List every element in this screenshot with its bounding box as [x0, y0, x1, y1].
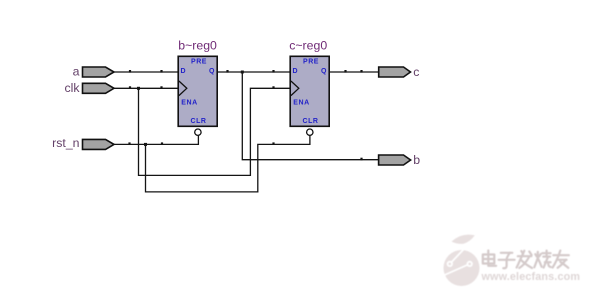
svg-text:D: D	[293, 68, 299, 75]
svg-text:D: D	[181, 68, 187, 75]
svg-text:ENA: ENA	[181, 99, 197, 106]
svg-text:rst_n: rst_n	[52, 136, 79, 150]
svg-text:c: c	[413, 65, 419, 79]
svg-text:c~reg0: c~reg0	[289, 39, 327, 53]
svg-text:clk: clk	[64, 81, 80, 95]
svg-text:CLR: CLR	[303, 118, 319, 125]
svg-text:PRE: PRE	[191, 59, 207, 66]
svg-text:a: a	[73, 65, 80, 79]
svg-text:PRE: PRE	[303, 59, 319, 66]
svg-text:Q: Q	[209, 68, 215, 75]
svg-text:CLR: CLR	[191, 118, 207, 125]
svg-text:b: b	[413, 153, 420, 167]
svg-text:Q: Q	[321, 68, 327, 75]
svg-text:b~reg0: b~reg0	[178, 39, 217, 53]
svg-text:www.elecfans.com: www.elecfans.com	[481, 271, 581, 283]
svg-text:ENA: ENA	[293, 99, 309, 106]
